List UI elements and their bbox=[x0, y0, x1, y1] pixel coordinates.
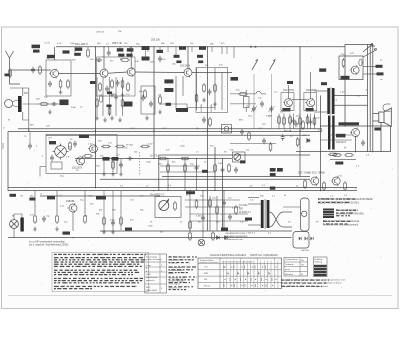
label box tone bbox=[240, 160, 246, 163]
transistor T1 FM RF bbox=[49, 69, 59, 79]
resistor R10 in box bbox=[342, 58, 345, 68]
wire vertical rail x222 bbox=[222, 159, 224, 232]
resistor R17 bbox=[167, 163, 170, 173]
wire speaker down bbox=[380, 123, 382, 152]
wire cb v5 bbox=[223, 191, 225, 231]
resistor R3 bbox=[87, 48, 90, 58]
ground in FM box bbox=[59, 90, 63, 95]
volume pot box bbox=[155, 197, 181, 218]
label box m small2 bbox=[107, 105, 112, 108]
svg-text:108 1kS: 108 1kS bbox=[96, 32, 105, 34]
wire top supply bus bbox=[56, 46, 345, 48]
ground IF bbox=[202, 98, 206, 103]
output transformer winding right bbox=[267, 200, 270, 228]
mixer stage box bbox=[97, 57, 136, 96]
label box D3 bbox=[174, 55, 180, 58]
svg-text:2SC1675L: 2SC1675L bbox=[306, 89, 318, 92]
notes column mid-right bbox=[169, 256, 186, 290]
resistor R9 bbox=[238, 93, 248, 96]
ground p1 bbox=[33, 227, 37, 232]
label box preamp input bbox=[96, 196, 106, 200]
tick left edge bbox=[2, 143, 4, 149]
mid extra wires bbox=[40, 144, 276, 177]
label box E1 bbox=[319, 68, 326, 71]
wire driver out mid bbox=[332, 104, 368, 106]
svg-text:TA 7022: TA 7022 bbox=[239, 204, 248, 207]
resistor Ra5 bbox=[306, 115, 309, 125]
wire string m3 bbox=[109, 77, 111, 116]
svg-text:Funktion: Funktion bbox=[315, 258, 324, 261]
resistor R1 bbox=[59, 79, 62, 89]
label box AF pair b bbox=[277, 168, 283, 172]
wire cb rung2 bbox=[185, 206, 240, 208]
wire conn link 2 bbox=[363, 73, 377, 75]
transistor T8 output lower bbox=[350, 128, 360, 138]
svg-text:M: M bbox=[8, 120, 10, 122]
svg-text:1.6V: 1.6V bbox=[130, 128, 135, 130]
transistor T12 AF out driver 2 bbox=[331, 176, 341, 186]
wire T2 collector up bbox=[103, 47, 105, 70]
transistor T2 mixer bbox=[99, 68, 109, 78]
label box E3 bbox=[282, 108, 290, 111]
wire bottom supply bus lower bbox=[8, 190, 357, 192]
pilot lamp bbox=[198, 239, 205, 246]
label box E4 bbox=[306, 108, 314, 111]
wire into transformer 1 bbox=[314, 90, 327, 92]
capacitor C8 bbox=[195, 165, 199, 171]
capacitor C7 bbox=[127, 157, 133, 161]
label box mixer top bbox=[90, 81, 96, 84]
label box osc left edge bbox=[231, 77, 239, 81]
wire xfmr in1 bbox=[248, 203, 261, 205]
capacitor C1 bbox=[48, 81, 52, 87]
svg-text:6 V: 6 V bbox=[146, 271, 150, 273]
resistor R27 bbox=[209, 198, 212, 208]
svg-text:position of switches: position of switches bbox=[200, 261, 220, 264]
notes under table2 bbox=[281, 279, 345, 288]
svg-text:4 V: 4 V bbox=[146, 268, 150, 270]
resistor R20 bbox=[304, 179, 307, 189]
label box D6 bbox=[198, 61, 203, 64]
capacitor C3 below T2 bbox=[116, 80, 120, 86]
wire xfmr in2 bbox=[248, 224, 261, 226]
transistor T4 IF amp bbox=[183, 68, 193, 78]
second table right bbox=[284, 258, 308, 277]
capacitor Cosc bbox=[240, 129, 244, 135]
wire preamp verticals bbox=[35, 191, 85, 231]
wire antenna vertical 1 bbox=[22, 88, 24, 96]
svg-text:Mikrofon: Mikrofon bbox=[285, 273, 294, 276]
label box AF line a bbox=[103, 157, 110, 161]
ferrite coil link bbox=[13, 100, 18, 102]
resistor R26 bbox=[174, 201, 177, 211]
svg-text:100n: 100n bbox=[70, 43, 76, 45]
wire FM box drop bbox=[54, 47, 56, 60]
pickup motor circle bbox=[10, 220, 19, 229]
label box AM osc coil bbox=[60, 100, 69, 106]
resistor R28 bbox=[216, 205, 219, 215]
antenna coupling parts bbox=[31, 67, 35, 73]
transistor T11 AF out driver 1 bbox=[309, 176, 319, 186]
label box m small bbox=[107, 92, 112, 95]
resistor R21 bbox=[323, 181, 326, 191]
capacitor Ca2 bbox=[309, 119, 313, 125]
wire T4 collector up bbox=[187, 47, 189, 69]
ferrite rod core bbox=[18, 96, 22, 112]
driver transformer lower winding right bbox=[332, 116, 334, 150]
driver transformer lower winding left bbox=[328, 116, 330, 150]
capacitor C52 bbox=[234, 167, 238, 173]
connector X circle bbox=[53, 144, 69, 160]
ground f3 bbox=[119, 172, 123, 177]
wire speaker feed top bbox=[373, 113, 379, 115]
wire vertical rail x345 bbox=[344, 47, 346, 126]
wire vertical rail x207 bbox=[207, 47, 209, 231]
resistor R48 bbox=[296, 137, 299, 147]
svg-text:Phono: Phono bbox=[204, 285, 211, 287]
svg-text:0.9V: 0.9V bbox=[162, 128, 167, 130]
comb stubs IF row bbox=[148, 47, 227, 54]
capacitor Ca1 bbox=[292, 118, 296, 124]
label box R cluster A2 bbox=[74, 53, 81, 56]
battery cell circle bbox=[302, 211, 307, 216]
speaker wires crossover bbox=[269, 212, 292, 227]
wire am row bbox=[23, 103, 60, 105]
bus switch circles bbox=[250, 46, 252, 48]
svg-text:2SC1675L: 2SC1675L bbox=[283, 89, 295, 92]
driver transformer core bbox=[330, 87, 332, 115]
label small left edge bbox=[5, 74, 10, 77]
component strings below AF line bbox=[104, 159, 121, 173]
svg-text:2SB186: 2SB186 bbox=[66, 200, 75, 203]
label box volume top bbox=[186, 191, 195, 194]
resistor R25 bbox=[84, 214, 87, 224]
table contact bars bbox=[224, 266, 272, 288]
svg-text:104 40k: 104 40k bbox=[211, 103, 213, 112]
driver transformer winding left bbox=[327, 88, 330, 114]
label box D2 bbox=[199, 46, 206, 50]
wire ground rail bottom bbox=[8, 237, 291, 239]
ground m3 bbox=[110, 116, 114, 121]
notes block left (text smudge) bbox=[54, 254, 146, 289]
resistor R51 bbox=[209, 117, 212, 127]
wire vertical rails right edge bbox=[367, 45, 369, 152]
svg-text:Stellung: Stellung bbox=[315, 261, 323, 264]
label box wide 2SC734 pair bbox=[339, 122, 360, 125]
wire feedback line B bbox=[100, 178, 310, 180]
label box B3 bbox=[127, 48, 134, 51]
wire feedback line A bbox=[162, 176, 310, 178]
tone net cap bbox=[262, 138, 266, 144]
wire antenna down bbox=[23, 112, 29, 120]
svg-text:551 2B: 551 2B bbox=[284, 131, 292, 133]
resistor R23 bbox=[34, 214, 37, 224]
IF strip box bbox=[46, 135, 117, 174]
wire left edge vertical bbox=[7, 132, 9, 191]
resistor Rosc bbox=[248, 131, 251, 141]
resistor R36 left edge bbox=[9, 68, 12, 78]
dark info block bbox=[323, 209, 334, 219]
resistor Ra2 bbox=[283, 116, 286, 126]
svg-text:GND: GND bbox=[146, 274, 151, 276]
label box near xfmr bbox=[245, 218, 252, 221]
IF area verticals bbox=[176, 68, 222, 110]
wire tone row bbox=[230, 143, 276, 145]
resistor R18 bbox=[184, 163, 187, 173]
resistor R35 bbox=[39, 103, 49, 106]
battery holder lower bbox=[293, 232, 309, 249]
wire T5 to T6 bbox=[292, 99, 307, 101]
label box top left pair b bbox=[33, 50, 40, 53]
tuning gang arrow 2 bbox=[270, 60, 276, 71]
label box D1 bbox=[179, 46, 186, 50]
svg-text:Druckt aste: Druckt aste bbox=[146, 276, 158, 279]
wire bottom supply bus upper bbox=[8, 187, 357, 189]
IF can box second bbox=[141, 86, 155, 114]
label box bottom mid bbox=[125, 228, 132, 231]
svg-text:220p: 220p bbox=[180, 146, 186, 148]
svg-text:4.5V: 4.5V bbox=[232, 208, 237, 210]
under table2 smudge bbox=[281, 280, 329, 287]
svg-text:ohne Signal: ohne Signal bbox=[169, 284, 181, 286]
wire AF line bbox=[75, 158, 232, 160]
svg-text:gedruckt: gedruckt bbox=[146, 279, 155, 282]
svg-text:100n: 100n bbox=[218, 163, 224, 165]
wire string m2 bbox=[102, 77, 104, 116]
tuning gang arrow 1 bbox=[252, 60, 258, 71]
resistor Ra4 bbox=[299, 116, 302, 126]
wire string m4 bbox=[115, 77, 117, 116]
wire long AGC bus lower bbox=[8, 131, 322, 133]
label box below bbox=[270, 187, 276, 190]
resistor R34 bbox=[159, 95, 162, 105]
label box conn R2 bbox=[377, 72, 384, 75]
wire osc coupling row1 bbox=[230, 91, 266, 104]
AF mid specks bbox=[294, 121, 298, 127]
svg-text:M: M bbox=[301, 274, 303, 276]
capacitor C23 bbox=[141, 95, 145, 101]
wire center rung2 bbox=[160, 171, 215, 173]
ferrite rod coil circle bbox=[5, 100, 13, 108]
ground below T2 bbox=[110, 93, 114, 98]
capacitor C22 in can bbox=[149, 101, 153, 107]
AF stage box T6 bbox=[304, 93, 317, 111]
variable capacitor VC2 arrow bbox=[269, 106, 275, 112]
wire cb rung3 bbox=[190, 213, 248, 215]
svg-text:mit Rohrenvolt-: mit Rohrenvolt- bbox=[169, 269, 184, 272]
label box 2SB type bbox=[341, 76, 350, 80]
wire pickup bottom bbox=[13, 228, 15, 237]
AF section box top bbox=[159, 154, 310, 156]
svg-text:5.8V: 5.8V bbox=[258, 128, 263, 130]
resistor R13 bbox=[115, 145, 125, 148]
wire center vertical v2 bbox=[184, 159, 186, 191]
AF stage box T5 bbox=[281, 93, 294, 111]
label box TB input bbox=[10, 194, 17, 197]
svg-text:ZF 460: ZF 460 bbox=[126, 145, 134, 147]
resistor R54 bbox=[212, 231, 215, 241]
svg-text:1.5V: 1.5V bbox=[340, 92, 345, 94]
svg-text:quelle ab datum: quelle ab datum bbox=[146, 258, 162, 261]
label box conn R1 bbox=[376, 65, 383, 68]
svg-text:gerat: gerat bbox=[285, 268, 290, 271]
diode D2 bbox=[307, 139, 310, 143]
svg-text:GM 354: GM 354 bbox=[301, 250, 310, 252]
resistor R16 bbox=[180, 157, 190, 160]
wire vertical rail x300 bbox=[299, 47, 301, 177]
svg-text:1.4V: 1.4V bbox=[88, 144, 93, 146]
mixer box interior parts bbox=[99, 82, 102, 92]
battery holder upper bbox=[301, 198, 310, 231]
ground m1 bbox=[95, 116, 99, 121]
label box preamp b bbox=[47, 196, 55, 200]
svg-text:osz: osz bbox=[274, 92, 277, 94]
label box TUN bbox=[47, 55, 55, 58]
svg-text:Spannungs: Spannungs bbox=[146, 257, 158, 259]
wire string m1 bbox=[96, 77, 98, 116]
wire T8 emitter down bbox=[355, 136, 357, 151]
transformer top frame bbox=[248, 197, 259, 199]
resistor R19 bbox=[214, 163, 217, 173]
wire antenna rail bbox=[28, 88, 30, 131]
label box B4 bbox=[126, 54, 132, 57]
resistor R11 bbox=[328, 153, 338, 156]
capacitor C21 bbox=[114, 94, 118, 100]
resistor R6 bbox=[203, 83, 206, 93]
transistor T13 preamp bbox=[68, 203, 78, 213]
resistor R8 bbox=[195, 93, 198, 103]
resistor R5 below T3 bbox=[121, 79, 124, 89]
oscillator coil bbox=[244, 90, 250, 112]
transistor T6 AF driver bbox=[305, 98, 315, 108]
resistor R4 below T2 bbox=[111, 79, 114, 89]
table contact dots bbox=[225, 267, 277, 287]
cap at left am bbox=[28, 143, 32, 149]
ground pm2 bbox=[111, 230, 115, 235]
transistor T10 FM IF bbox=[75, 156, 85, 166]
ground p2 bbox=[55, 227, 59, 232]
svg-text:1 2 3 4 5 6 7 8 9 10 11 12 13: 1 2 3 4 5 6 7 8 9 10 11 12 13 14 15 16 bbox=[222, 262, 252, 264]
wire pickup top bbox=[14, 214, 22, 220]
capacitor C47n bbox=[281, 134, 285, 140]
label box band bbox=[63, 50, 70, 53]
capacitor C6 right bbox=[361, 140, 365, 146]
wire speaker feed bottom bbox=[373, 120, 379, 122]
resistor R53 bbox=[189, 231, 192, 241]
wire driver out top bbox=[332, 95, 368, 97]
input transformer coil bbox=[20, 218, 23, 232]
wire vertical rail x215 bbox=[214, 147, 216, 191]
wire into transformer 2 bbox=[314, 111, 327, 113]
resistor R50 bbox=[112, 160, 115, 170]
antenna rod telescopic bbox=[6, 51, 21, 84]
label box AM IF under T4 bbox=[176, 108, 188, 112]
svg-text:U K: U K bbox=[204, 267, 208, 269]
wire vertical rail x320 bbox=[320, 96, 322, 191]
battery cells symbols bbox=[299, 237, 313, 240]
label box B1 bbox=[117, 48, 124, 51]
resistor R12 bbox=[101, 145, 111, 148]
capacitor C4 bbox=[208, 89, 212, 95]
extra speckle texts pass2 bbox=[12, 31, 370, 235]
wire cb v4 bbox=[216, 196, 218, 231]
notes block frame bbox=[52, 252, 149, 291]
output stage upper box bbox=[339, 56, 363, 80]
svg-text:AM: AM bbox=[30, 124, 33, 127]
rotated value text bbox=[201, 103, 213, 112]
resistor R15 bbox=[158, 157, 168, 160]
wire center rung bbox=[160, 165, 200, 167]
svg-text:L 604 4.5: L 604 4.5 bbox=[246, 233, 256, 235]
wires top right diagonals bbox=[363, 43, 376, 57]
svg-text:SCHALTERSTELLUNGEN SWITCH: SCHALTERSTELLUNGEN SWITCH DIAGRAM bbox=[210, 253, 278, 257]
label box volume feed bbox=[202, 170, 208, 173]
label box C1a bbox=[142, 46, 150, 50]
driver transformer winding right bbox=[332, 88, 335, 114]
capacitor C10 bbox=[42, 216, 46, 222]
wire T3 collector up bbox=[130, 47, 132, 69]
capacitor C50 bbox=[119, 162, 123, 168]
resistor Ra3 bbox=[289, 115, 292, 125]
ground f2 bbox=[111, 172, 115, 177]
svg-text:fur xx HiFi ersatzweise verwen: fur xx HiFi ersatzweise verwendbar bbox=[29, 241, 65, 244]
wire if out step bbox=[40, 167, 46, 177]
svg-text:ROT: ROT bbox=[146, 287, 151, 289]
svg-text:AFC: AFC bbox=[239, 119, 244, 122]
svg-text:1k 4.7k: 1k 4.7k bbox=[150, 155, 159, 158]
battery note smudge bbox=[318, 198, 356, 224]
resistor R33 in can bbox=[144, 89, 147, 99]
svg-text:255 25k: 255 25k bbox=[151, 39, 161, 42]
wire osc coupling row2 bbox=[230, 103, 256, 105]
wire antenna top horiz bbox=[10, 87, 29, 89]
resistor R22 bbox=[344, 181, 347, 191]
IF can label box stack 1 bbox=[164, 79, 173, 83]
svg-text:W 6034 4.7: W 6034 4.7 bbox=[239, 212, 251, 214]
wire cb rung4 bbox=[190, 220, 248, 222]
wire out lower transformer bbox=[331, 134, 352, 136]
resistor R2 bbox=[67, 79, 70, 89]
IF can label box stack 2 bbox=[164, 88, 173, 92]
wire output rail y151 bbox=[296, 151, 391, 153]
resistor Rp1 bbox=[103, 216, 106, 226]
wire string m5 bbox=[122, 77, 124, 116]
ground pm1 bbox=[102, 230, 106, 235]
ground rail diodes bbox=[217, 236, 228, 240]
output transformer winding left bbox=[261, 200, 264, 228]
wire bottom return line bbox=[40, 195, 160, 197]
label box top left pair a bbox=[32, 45, 41, 49]
capacitor C11 bbox=[222, 200, 226, 206]
small conn box below X connector bbox=[51, 162, 62, 169]
electrolytic C20 bbox=[99, 96, 102, 102]
resistor Ra1 bbox=[278, 115, 281, 125]
svg-text:104 40k: 104 40k bbox=[201, 103, 203, 112]
wire T6 collector up bbox=[310, 72, 312, 99]
label box AF pair c bbox=[270, 173, 276, 176]
label box B2 bbox=[118, 54, 124, 57]
resistor R31 bbox=[121, 98, 124, 108]
AF section box left bbox=[158, 155, 160, 191]
trimmer cap osc bbox=[260, 101, 264, 107]
wire center vertical v3 bbox=[196, 159, 198, 191]
transistor T5 AF pre bbox=[283, 98, 293, 108]
osc area small pot bbox=[222, 125, 232, 134]
earphone jack right edge bbox=[383, 104, 391, 111]
ground r34 bbox=[158, 110, 162, 115]
label box under preamp bbox=[63, 232, 71, 235]
wire output rail y126 bbox=[321, 125, 391, 127]
